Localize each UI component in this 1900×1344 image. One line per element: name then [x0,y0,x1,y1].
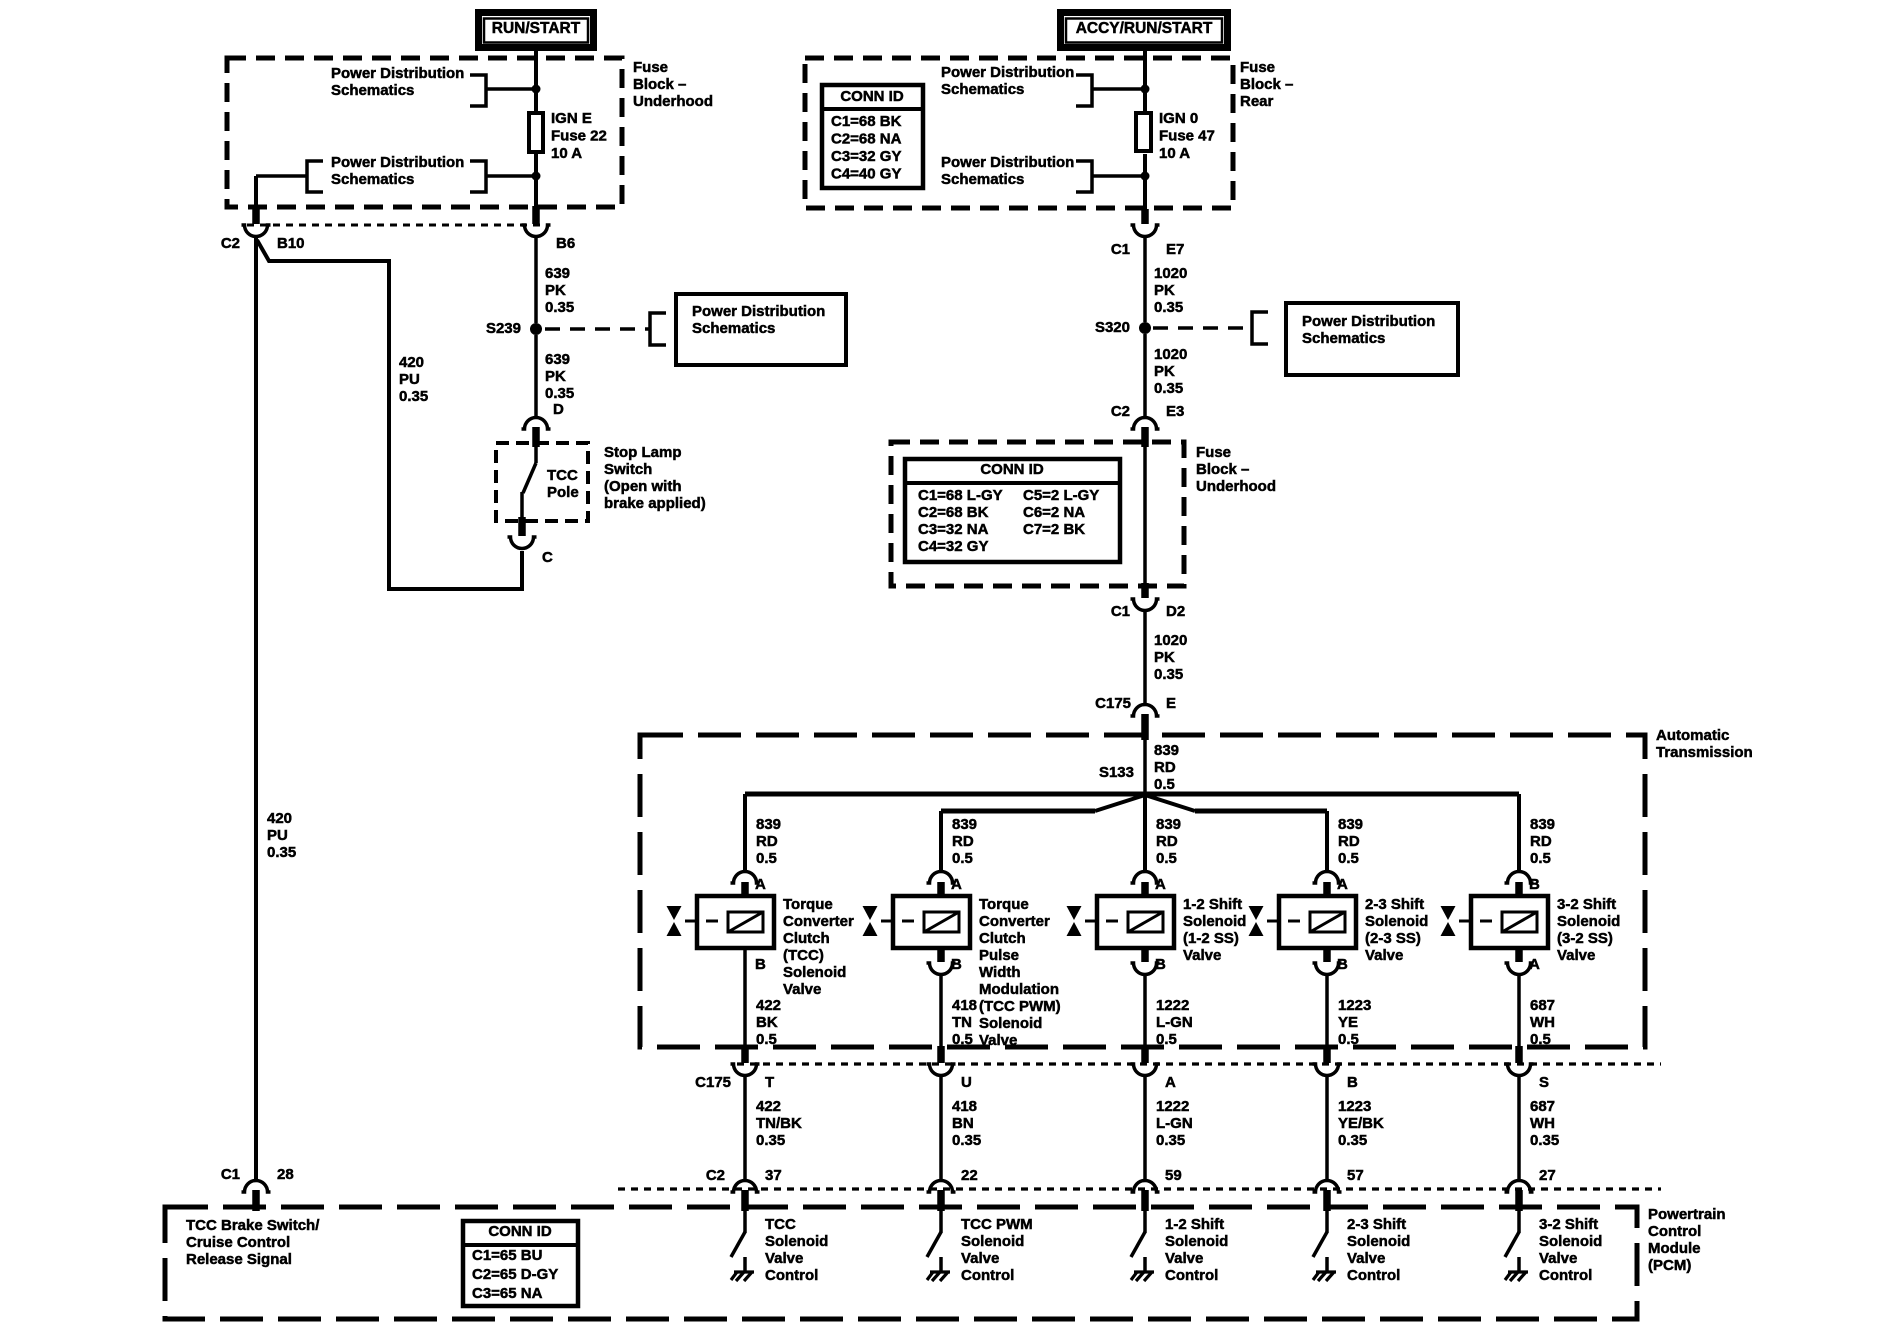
valve bowtie col4 [1249,906,1264,936]
connector C1 28 [242,1181,271,1193]
svg-text:D: D [553,401,564,418]
svg-text:A: A [755,876,766,893]
connector PCM pin 22 col2 [927,1181,956,1193]
wire 1020 a [1143,238,1147,322]
ground col3 [1134,1270,1154,1273]
conn id table 2 [905,459,1120,562]
wire B10 branch [257,240,522,589]
connector C175 pin U col2 [937,1046,945,1063]
svg-text:37: 37 [765,1167,782,1184]
wire 1223 col4 [1325,1076,1329,1180]
svg-text:B: B [1337,956,1348,973]
connector C1 E7 [1141,209,1149,224]
TCC pole switch blade [534,447,538,463]
wire down to C2 [254,176,258,209]
svg-text:B: B [1347,1074,1358,1091]
wire 839 branch col5 [1517,794,1521,872]
svg-text:C2: C2 [706,1167,725,1184]
svg-text:TCCPole: TCCPole [547,467,579,501]
connector A col2 [927,872,956,884]
connector C175 E [1131,705,1160,717]
svg-text:57: 57 [1347,1167,1364,1184]
reference power distribution schematics at S239 [545,327,650,331]
svg-text:E7: E7 [1166,241,1184,258]
ground col1 [734,1270,754,1273]
junction [1141,172,1150,181]
wire 422 col1 [743,948,747,1048]
junction [532,85,541,94]
junction [532,172,541,181]
valve bowtie col1 [667,906,682,936]
connector PCM pin 27 col5 [1505,1181,1534,1193]
svg-text:A: A [1529,956,1540,973]
connector C2 B10 [252,206,260,224]
svg-text:CONN ID: CONN ID [980,461,1044,478]
svg-text:CONN ID: CONN ID [840,88,904,105]
ground col5 [1508,1270,1528,1273]
wire ACCY feed [1143,47,1147,111]
svg-text:C1=68 BKC2=68 NAC3=32 GYC4=40: C1=68 BKC2=68 NAC3=32 GYC4=40 GY [831,113,902,183]
svg-text:C: C [542,549,553,566]
svg-text:S239: S239 [486,320,521,337]
inline connector row dotted line [247,224,545,227]
wire 687 col5 [1517,974,1521,1048]
splice S239 [530,323,542,335]
connector B col4 [1323,948,1331,962]
wire 1222 col3 [1143,974,1147,1048]
connector PCM pin 37 col1 [731,1181,760,1193]
svg-text:A: A [1337,876,1348,893]
svg-text:S: S [1539,1074,1549,1091]
fuse IGN 0 Fuse 47 10 A [1136,113,1151,151]
PCM driver switch col4 [1325,1211,1329,1233]
svg-text:S320: S320 [1095,319,1130,336]
svg-text:C1: C1 [221,1166,240,1183]
bus S133 diagonals [1095,795,1145,811]
fuse IGN E Fuse 22 10 A [529,113,543,152]
connector D [522,418,551,430]
ground col4 [1316,1270,1336,1273]
svg-text:687WH0.35: 687WH0.35 [1530,1098,1559,1149]
wire 1223 col4 [1325,974,1329,1048]
wire 639 lower [534,335,538,416]
stop lamp switch box [496,443,588,521]
svg-text:B: B [1529,876,1540,893]
ground col2 [930,1270,950,1273]
wire 1020 b [1143,334,1147,417]
svg-text:B: B [1155,956,1166,973]
svg-text:T: T [765,1074,774,1091]
svg-text:RUN/START: RUN/START [492,20,581,37]
connector B col2 [937,948,945,962]
connector A col3 [1131,872,1160,884]
connector C175 pin A col3 [1141,1046,1149,1063]
connector C [518,517,526,536]
conn id table 1 [822,85,923,188]
svg-text:C1: C1 [1111,241,1130,258]
svg-text:A: A [951,876,962,893]
svg-text:C175: C175 [695,1074,731,1091]
svg-text:U: U [961,1074,972,1091]
wire 639 upper [534,237,538,323]
wire 422 col1 [743,1076,747,1180]
connector C1 D2 [1141,583,1149,598]
wire 418 col2 [939,1076,943,1180]
svg-text:ACCY/RUN/START: ACCY/RUN/START [1076,20,1213,37]
connector C175 pin T col1 [741,1046,749,1063]
connector B col3 [1141,948,1149,962]
wire 418 col2 [939,974,943,1048]
solenoid valve symbol col5 [1471,896,1548,948]
connector B col5 [1505,872,1534,884]
svg-text:D2: D2 [1166,603,1185,620]
wire 687 col5 [1517,1076,1521,1180]
svg-text:A: A [1165,1074,1176,1091]
svg-text:E3: E3 [1166,403,1184,420]
connector row C2 dotted line [618,1187,1661,1190]
wire 839 branch col3 [1143,795,1147,872]
connector row C175 dotted line [737,1062,1661,1065]
svg-text:CONN ID: CONN ID [488,1223,552,1240]
PCM driver switch col5 [1517,1211,1521,1233]
wire RUN/START feed [534,51,538,111]
svg-text:C175: C175 [1095,695,1131,712]
wire 839 branch col1 [743,794,747,872]
valve bowtie col3 [1067,906,1082,936]
solenoid valve symbol col4 [1279,896,1356,948]
wire 839 branch col4 [1325,811,1329,872]
wire 1222 col3 [1143,1076,1147,1180]
bus S133 second left [941,809,1095,814]
svg-text:B: B [951,956,962,973]
PCM driver switch col1 [743,1211,747,1233]
wire 1020 c [1143,612,1147,704]
svg-text:C1: C1 [1111,603,1130,620]
power label RUN/START [479,13,594,48]
splice S320 [1139,322,1151,334]
bus S133 second right [1195,809,1327,814]
conn id table 3 [463,1221,578,1306]
connector A col5 [1515,948,1523,962]
bracket to C2 wire [307,161,323,192]
connector A col1 [731,872,760,884]
wire 839 branch col2 [939,811,943,872]
svg-text:B10: B10 [277,235,305,252]
connector C2 E3 [1131,418,1160,430]
svg-text:59: 59 [1165,1167,1182,1184]
svg-text:C2: C2 [1111,403,1130,420]
fuse block underhood box [227,58,622,207]
wire 420 PU main [254,237,258,1180]
connector PCM pin 59 col3 [1131,1181,1160,1193]
solenoid valve symbol col1 [697,896,774,948]
svg-text:22: 22 [961,1167,978,1184]
connector PCM pin 57 col4 [1313,1181,1342,1193]
solenoid valve symbol col2 [893,896,970,948]
svg-text:B: B [755,956,766,973]
valve bowtie col5 [1441,906,1456,936]
svg-text:28: 28 [277,1166,294,1183]
powertrain control module box [165,1207,1637,1319]
wire 839 main [1143,737,1147,796]
svg-text:C2: C2 [221,235,240,252]
svg-text:B6: B6 [556,235,575,252]
fuse block underhood box 2 [891,442,1184,586]
bus S133 top [745,792,1519,797]
power label ACCY/RUN/START [1061,13,1228,48]
PCM driver switch col3 [1143,1211,1147,1233]
connector C175 pin S col5 [1515,1046,1523,1063]
connector A col4 [1313,872,1342,884]
wire through fuse block 2 [1143,447,1147,583]
valve bowtie col2 [863,906,878,936]
junction [1141,85,1150,94]
svg-text:27: 27 [1539,1167,1556,1184]
svg-text:A: A [1155,876,1166,893]
PCM driver switch col2 [939,1211,943,1233]
reference power distribution schematics at S320 [1153,326,1252,330]
connector B6 [532,206,540,224]
fuse block rear box [805,58,1233,208]
svg-text:S133: S133 [1099,764,1134,781]
solenoid valve symbol col3 [1097,896,1174,948]
connector C175 pin B col4 [1323,1046,1331,1063]
svg-text:E: E [1166,695,1176,712]
automatic transmission box [640,735,1645,1047]
